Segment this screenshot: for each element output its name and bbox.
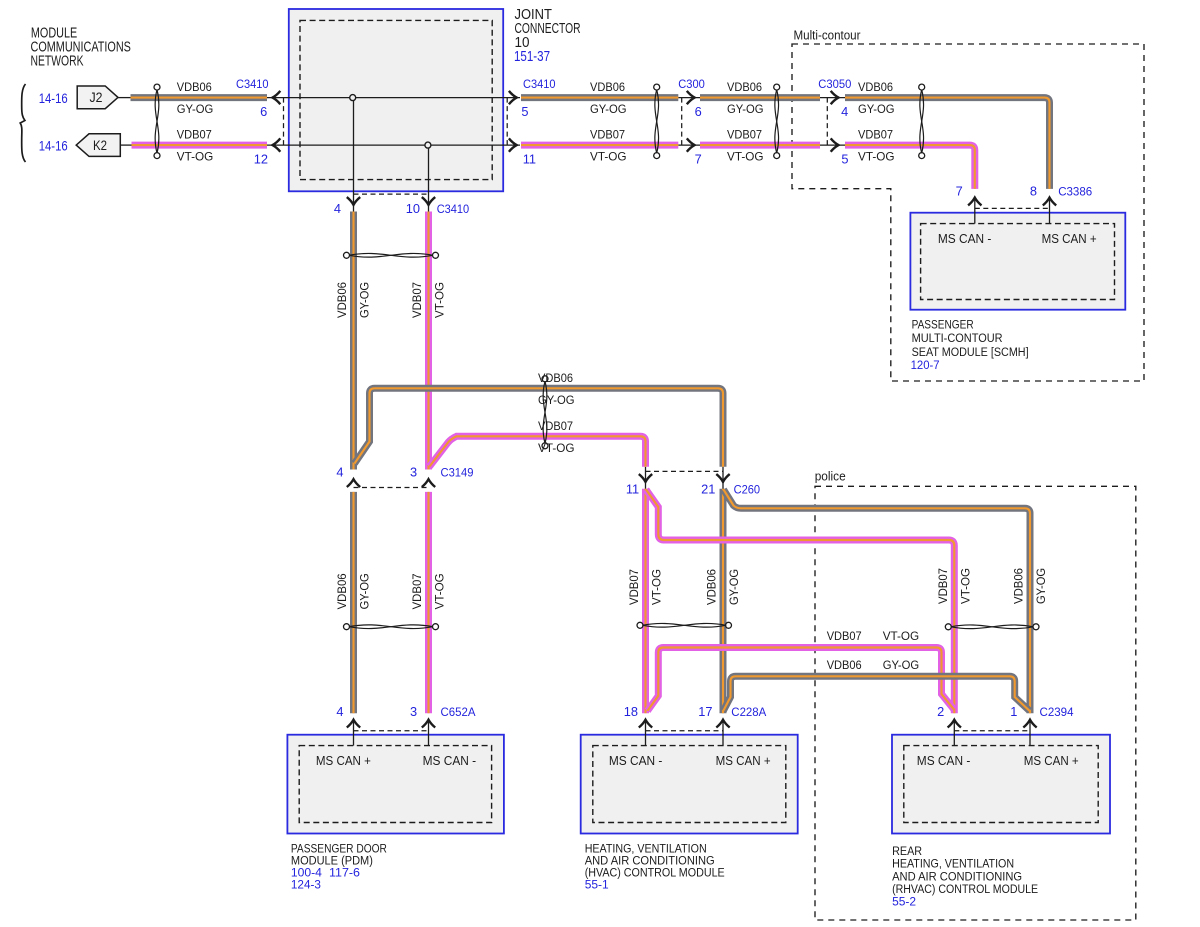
svg-text:11: 11 [626, 482, 639, 497]
svg-text:MS CAN +: MS CAN + [716, 753, 771, 768]
svg-text:C3149: C3149 [441, 466, 474, 480]
svg-text:MS CAN +: MS CAN + [1042, 231, 1097, 246]
svg-text:VDB06: VDB06 [335, 573, 349, 609]
svg-text:117-6: 117-6 [329, 866, 360, 880]
svg-text:VT-OG: VT-OG [538, 441, 575, 455]
svg-text:21: 21 [701, 482, 715, 497]
svg-text:VDB07: VDB07 [627, 569, 641, 605]
svg-text:VT-OG: VT-OG [177, 149, 214, 163]
svg-text:GY-OG: GY-OG [858, 102, 895, 116]
svg-text:VT-OG: VT-OG [433, 573, 447, 609]
svg-text:4: 4 [841, 104, 848, 119]
svg-text:3: 3 [410, 465, 417, 480]
svg-text:VDB06: VDB06 [705, 569, 719, 605]
svg-text:GY-OG: GY-OG [358, 282, 372, 318]
svg-text:6: 6 [695, 104, 702, 119]
svg-text:7: 7 [956, 183, 963, 198]
svg-text:VDB07: VDB07 [177, 128, 212, 142]
svg-text:VT-OG: VT-OG [590, 149, 627, 163]
svg-text:1: 1 [1010, 704, 1017, 719]
svg-text:MS CAN -: MS CAN - [938, 231, 992, 246]
svg-text:MS CAN +: MS CAN + [316, 753, 371, 768]
svg-text:GY-OG: GY-OG [1034, 568, 1048, 604]
svg-text:MULTI-CONTOUR: MULTI-CONTOUR [912, 331, 1003, 345]
svg-text:MS CAN -: MS CAN - [917, 753, 971, 768]
svg-text:8: 8 [1030, 183, 1037, 198]
svg-text:K2: K2 [93, 138, 107, 153]
svg-text:VDB07: VDB07 [858, 128, 893, 142]
svg-text:18: 18 [624, 704, 638, 719]
svg-text:VT-OG: VT-OG [858, 149, 895, 163]
svg-text:VDB07: VDB07 [410, 573, 424, 609]
svg-text:C228A: C228A [731, 705, 767, 719]
svg-text:GY-OG: GY-OG [727, 569, 741, 605]
svg-text:12: 12 [254, 152, 268, 167]
svg-text:7: 7 [695, 152, 702, 167]
svg-text:VDB06: VDB06 [1012, 568, 1026, 604]
svg-text:VDB06: VDB06 [827, 658, 862, 672]
svg-text:VDB06: VDB06 [590, 80, 625, 94]
svg-text:4: 4 [336, 704, 343, 719]
svg-text:C3410: C3410 [236, 77, 269, 91]
svg-text:MS CAN -: MS CAN - [423, 753, 477, 768]
svg-text:3: 3 [410, 704, 417, 719]
svg-text:VT-OG: VT-OG [650, 569, 664, 605]
svg-text:GY-OG: GY-OG [538, 393, 575, 407]
svg-text:MS CAN +: MS CAN + [1024, 753, 1079, 768]
svg-text:4: 4 [334, 201, 341, 216]
svg-text:VT-OG: VT-OG [727, 149, 764, 163]
svg-text:C3386: C3386 [1058, 184, 1092, 198]
svg-text:4: 4 [336, 465, 343, 480]
svg-text:VDB07: VDB07 [410, 282, 424, 318]
svg-text:GY-OG: GY-OG [883, 658, 920, 672]
svg-text:120-7: 120-7 [911, 358, 940, 372]
svg-text:VT-OG: VT-OG [958, 568, 972, 604]
svg-text:C3410: C3410 [523, 77, 556, 91]
svg-text:C300: C300 [678, 77, 705, 91]
svg-text:VDB06: VDB06 [177, 80, 212, 94]
svg-text:J2: J2 [90, 90, 103, 105]
svg-text:VDB07: VDB07 [727, 128, 762, 142]
svg-text:C260: C260 [734, 483, 761, 497]
svg-text:2: 2 [937, 704, 944, 719]
svg-text:police: police [815, 469, 846, 484]
svg-text:VT-OG: VT-OG [433, 282, 447, 318]
svg-text:55-2: 55-2 [892, 895, 916, 909]
svg-text:VDB06: VDB06 [538, 371, 573, 385]
svg-text:GY-OG: GY-OG [358, 573, 372, 609]
svg-text:C3050: C3050 [818, 77, 851, 91]
svg-text:VDB07: VDB07 [936, 568, 950, 604]
svg-text:55-1: 55-1 [585, 878, 609, 892]
svg-text:Multi-contour: Multi-contour [794, 28, 862, 43]
svg-text:14-16: 14-16 [39, 91, 68, 106]
svg-text:5: 5 [521, 104, 528, 119]
svg-text:VDB07: VDB07 [538, 419, 573, 433]
svg-text:NETWORK: NETWORK [31, 54, 84, 70]
svg-text:MS CAN -: MS CAN - [609, 753, 663, 768]
svg-text:PASSENGER: PASSENGER [912, 318, 974, 332]
svg-text:VDB06: VDB06 [858, 80, 893, 94]
svg-text:VDB07: VDB07 [590, 128, 625, 142]
svg-text:5: 5 [841, 152, 848, 167]
svg-text:C3410: C3410 [437, 202, 470, 216]
svg-text:11: 11 [523, 152, 536, 167]
svg-text:VDB07: VDB07 [827, 629, 862, 643]
svg-text:GY-OG: GY-OG [177, 102, 214, 116]
svg-text:C652A: C652A [441, 705, 477, 719]
svg-text:14-16: 14-16 [39, 138, 68, 153]
svg-text:6: 6 [260, 104, 267, 119]
svg-text:SEAT MODULE [SCMH]: SEAT MODULE [SCMH] [912, 345, 1029, 359]
svg-text:124-3: 124-3 [291, 878, 321, 892]
svg-text:VDB06: VDB06 [727, 80, 762, 94]
svg-text:151-37: 151-37 [514, 49, 550, 65]
svg-text:17: 17 [698, 704, 712, 719]
svg-text:C2394: C2394 [1040, 705, 1074, 719]
svg-text:GY-OG: GY-OG [590, 102, 627, 116]
svg-text:VT-OG: VT-OG [883, 629, 920, 643]
svg-text:GY-OG: GY-OG [727, 102, 764, 116]
svg-text:VDB06: VDB06 [335, 282, 349, 318]
svg-text:10: 10 [406, 201, 420, 216]
